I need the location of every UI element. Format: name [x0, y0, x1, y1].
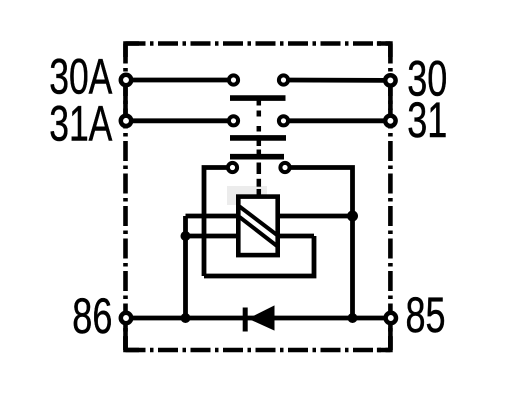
junction x=352.5 / y=216 [347, 211, 358, 222]
wire 30A to left contact of K1 [126, 78, 234, 83]
wire coil top terminal row (y=216) from x=186 to x=352.5 [186, 214, 353, 219]
border solid segment between 30 and 31 terminals [388, 86, 393, 110]
svg-text:31: 31 [407, 92, 447, 148]
junction x=352.5 / bottom rail [348, 313, 358, 323]
diode V1 (cathode bar) [243, 308, 248, 332]
contact K2 fixed right [279, 116, 288, 125]
wire aux contact left to coil branch (down at x=204) [204, 168, 233, 277]
junction x=186 / bottom rail [181, 313, 191, 323]
diode V1 (anode triangle, pointing left) [248, 305, 275, 330]
wire 86 to 85 (bottom rail y=317.5) [126, 316, 391, 321]
wire right contact of K1 to 30 [284, 78, 391, 83]
terminal 85 [386, 313, 396, 323]
terminal 31A [121, 116, 131, 126]
relay housing border (dash-dot) [126, 44, 391, 351]
wire bottom of coil loop y=276 and x=314 riser [204, 236, 314, 276]
border solid segment below 85 terminal [388, 324, 393, 350]
contact K3 fixed right [280, 163, 289, 172]
relay coil (rect with diagonal stripe) [238, 197, 277, 256]
terminal 86 [121, 313, 131, 323]
bridge contact bar K3 (aux) [230, 154, 284, 160]
contact K1 fixed left [229, 75, 238, 84]
wire aux contact right to x=352.5 down to 85 node [285, 168, 353, 319]
border solid segment between 30A and 31A terminals [123, 85, 128, 116]
terminal 31 [385, 116, 395, 126]
bridge contact bar K2 (31A-31) [230, 135, 286, 141]
border solid segment below 86 terminal [123, 324, 128, 350]
svg-text:31A: 31A [49, 96, 113, 152]
svg-text:85: 85 [406, 287, 446, 343]
wire right contact of K2 to 31 [284, 118, 391, 123]
scan smudge (faint watermark) [227, 186, 267, 205]
contact K1 fixed right [279, 75, 288, 84]
contact K3 fixed left [228, 163, 237, 172]
wire coil lower terminal row (y=236) from x=186 to x=314 [186, 234, 315, 239]
bridge contact bar K1 (30A-30) [230, 95, 286, 101]
junction x=186 / y=236 [181, 231, 191, 241]
terminal 30A [121, 75, 131, 85]
wire 31A to left contact of K2 [126, 118, 234, 123]
wire x=186 vertical from coil wire down to 86 node [183, 216, 188, 318]
svg-text:86: 86 [72, 288, 112, 344]
actuator link (dashed) x=258.8 [257, 98, 262, 197]
contact K2 fixed left [229, 116, 238, 125]
terminal 30 [385, 75, 395, 85]
